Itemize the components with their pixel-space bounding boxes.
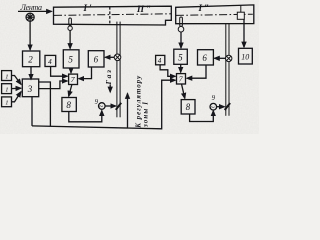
svg-text:2: 2 — [28, 54, 33, 64]
svg-text:5: 5 — [68, 54, 73, 64]
svg-text:II ″: II ″ — [136, 4, 151, 14]
svg-text:1: 1 — [5, 86, 8, 93]
svg-text:I ′: I ′ — [83, 3, 93, 13]
svg-text:зоны I: зоны I — [141, 102, 149, 128]
svg-text:~: ~ — [99, 102, 104, 111]
svg-text:5: 5 — [178, 52, 183, 62]
svg-text:6: 6 — [202, 53, 207, 63]
svg-text:1: 1 — [5, 99, 8, 106]
svg-text:6: 6 — [94, 54, 99, 64]
svg-text:1: 1 — [5, 73, 8, 80]
svg-text:10: 10 — [241, 53, 249, 62]
svg-text:~: ~ — [210, 103, 215, 112]
svg-text:4: 4 — [48, 58, 52, 66]
svg-text:3: 3 — [27, 84, 33, 94]
svg-text:Газ: Газ — [104, 70, 113, 86]
svg-text:9: 9 — [212, 95, 216, 102]
svg-text:4: 4 — [158, 57, 162, 65]
svg-text:8: 8 — [186, 102, 191, 112]
svg-text:Лента: Лента — [20, 3, 43, 12]
svg-text:I ″: I ″ — [198, 3, 210, 13]
svg-text:8: 8 — [66, 100, 71, 110]
